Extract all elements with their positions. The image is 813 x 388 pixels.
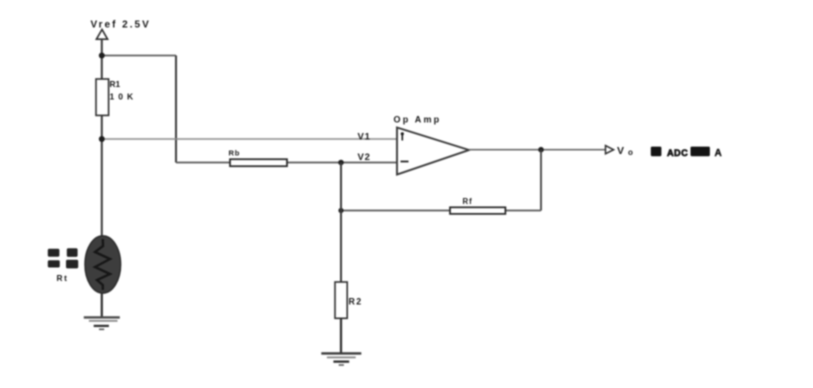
op-amp U1 — [397, 128, 469, 175]
svg-text:Op Amp: Op Amp — [394, 114, 442, 124]
wire Vref vertical down to R1 and thermistor — [101, 39, 103, 236]
resistor Rf — [450, 207, 505, 214]
ground below R2 — [321, 353, 361, 365]
wire vertical down to Rb — [175, 56, 177, 163]
label thermistor glyph blobs — [48, 248, 78, 268]
junction at Vref node — [99, 53, 105, 59]
svg-text:o: o — [628, 148, 633, 157]
ground below thermistor — [84, 317, 120, 329]
pin plus mark — [401, 133, 403, 141]
output arrow — [606, 146, 614, 154]
thermistor zigzag — [95, 239, 110, 290]
svg-text:V1: V1 — [358, 131, 371, 142]
wire Vref node to right — [102, 55, 176, 57]
svg-text:Rb: Rb — [229, 149, 241, 158]
svg-text:A: A — [715, 148, 722, 159]
junction divider node — [99, 136, 105, 142]
svg-text:Rf: Rf — [463, 197, 473, 206]
svg-text:V2: V2 — [358, 152, 371, 163]
junction node V2 — [338, 160, 344, 166]
wire thermistor to ground — [101, 293, 103, 318]
pin minus mark — [401, 161, 409, 163]
junction output node — [538, 147, 544, 153]
svg-text:R2: R2 — [349, 297, 363, 307]
wire V2 node down to R2 — [340, 163, 342, 283]
power symbol Vref arrow — [96, 30, 107, 40]
svg-text:10K: 10K — [110, 92, 138, 102]
wire divider node to V1 input — [102, 138, 397, 140]
label ADC destination text — [651, 147, 662, 157]
svg-text:ADC: ADC — [667, 148, 688, 158]
resistor Rb — [230, 159, 287, 166]
svg-text:V: V — [617, 145, 624, 157]
junction feedback/R2 node — [338, 208, 343, 213]
wire feedback horizontal — [341, 210, 541, 212]
resistor R1 — [96, 79, 109, 115]
wire op-amp output — [469, 149, 606, 151]
svg-text:Vref 2.5V: Vref 2.5V — [91, 20, 151, 31]
wire Rb line to V2 — [176, 162, 397, 164]
thermistor Rt body — [85, 236, 121, 293]
wire feedback vertical — [540, 150, 542, 211]
svg-text:R1: R1 — [110, 79, 121, 89]
svg-text:Rt: Rt — [57, 273, 69, 283]
wire R2 to ground — [340, 318, 342, 353]
resistor R2 — [335, 282, 347, 318]
